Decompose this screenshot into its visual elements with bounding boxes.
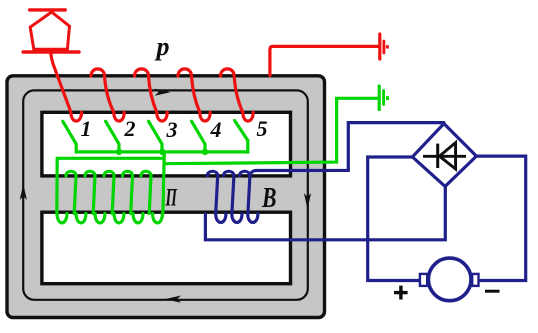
red plug socket bar bbox=[378, 34, 381, 59]
wire bridge left corner to motor plus side bbox=[368, 157, 420, 281]
winding V loop 2 top arc and front stroke bbox=[224, 171, 234, 213]
wire winding V output to bridge top corner bbox=[250, 123, 444, 176]
flux arrow bottom (left) bbox=[165, 296, 181, 303]
wire pentagon stem to winding P, tap hook 1 bbox=[51, 53, 82, 121]
winding P loop 3 bbox=[135, 69, 168, 121]
green plug pin tip bbox=[386, 96, 389, 100]
motor left brush bbox=[420, 274, 427, 286]
plus sign bbox=[394, 291, 408, 294]
red plug pin tip bbox=[386, 45, 389, 48]
winding Pi bottom arc 5 bbox=[133, 214, 143, 223]
winding Pi bottom arc 6 bbox=[153, 214, 163, 223]
svg-text:В: В bbox=[261, 182, 276, 214]
svg-text:5: 5 bbox=[257, 116, 268, 141]
winding Pi right end riser bbox=[163, 152, 164, 214]
bridge rectifier diamond bbox=[412, 124, 476, 187]
motor right brush bbox=[472, 274, 478, 286]
switch blade 4 bbox=[192, 121, 205, 152]
winding V left end wire down and to bridge bottom bbox=[205, 186, 445, 240]
svg-text:p: p bbox=[155, 32, 170, 61]
green tap bus bbox=[76, 150, 248, 153]
green plug pin bar bbox=[382, 91, 385, 105]
tap changer pentagon bbox=[30, 12, 69, 49]
winding Pi bottom arc 4 bbox=[114, 214, 124, 223]
wire bus to winding Pi left end bbox=[57, 158, 164, 213]
wire bridge right corner to motor minus side bbox=[476, 156, 525, 280]
winding P loop 2 bbox=[91, 69, 124, 121]
winding Pi bottom arc 3 bbox=[95, 214, 105, 223]
winding V loop 3 top arc and front stroke bbox=[240, 171, 250, 213]
wire winding P end up and right to red plug bbox=[270, 46, 378, 75]
tap changer pentagon symbol top bar bbox=[30, 8, 66, 11]
winding V loop 1 top arc and front stroke bbox=[207, 171, 217, 213]
winding V bottom arc 3 bbox=[248, 214, 258, 223]
motor M bbox=[428, 258, 471, 301]
winding Pi loop 3 top arc and front stroke bbox=[104, 171, 114, 213]
winding Pi bottom arc 1 bbox=[57, 214, 67, 223]
switch blade 3 bbox=[149, 121, 162, 152]
junction dot bbox=[116, 149, 122, 155]
switch blade 5 bbox=[235, 121, 248, 153]
green plug socket bar bbox=[378, 86, 381, 110]
core (gray magnetic core outer frame) bbox=[7, 76, 325, 318]
svg-text:2: 2 bbox=[124, 116, 136, 141]
diode horizontal line bbox=[423, 155, 466, 158]
upper window bbox=[42, 112, 291, 176]
winding Pi loop 4 top arc and front stroke bbox=[123, 171, 133, 213]
minus sign bbox=[485, 290, 500, 293]
junction dot bbox=[159, 149, 165, 155]
winding P loop 4 bbox=[178, 69, 210, 121]
winding P loop 5 bbox=[221, 69, 254, 121]
junction dot bbox=[202, 149, 208, 155]
switch blade 2 bbox=[106, 121, 119, 152]
red plug pin bar bbox=[382, 41, 385, 53]
flux path line bbox=[23, 90, 308, 299]
flux arrow top (right) bbox=[155, 89, 171, 96]
winding Pi loop 1 top arc and front stroke bbox=[66, 171, 76, 213]
diode triangle bbox=[439, 143, 455, 169]
tap changer pentagon bottom bar bbox=[23, 50, 79, 53]
flux arrow left (up) bbox=[20, 184, 27, 200]
wire winding Pi output to green plug bbox=[164, 98, 378, 163]
lower window bbox=[42, 212, 291, 284]
flux arrow right (down) bbox=[304, 193, 311, 209]
diode cathode bar bbox=[436, 144, 439, 168]
winding V bottom arc 2 bbox=[232, 214, 242, 223]
winding Pi loop 2 top arc and front stroke bbox=[85, 171, 95, 213]
svg-text:П: П bbox=[165, 185, 178, 212]
switch blade 1 bbox=[63, 121, 76, 152]
svg-text:4: 4 bbox=[210, 117, 222, 142]
winding Pi bottom arc 2 bbox=[76, 214, 86, 223]
svg-text:1: 1 bbox=[81, 116, 92, 141]
svg-text:3: 3 bbox=[166, 117, 178, 142]
winding Pi loop 5 top arc and front stroke bbox=[141, 171, 151, 213]
winding V bottom arc 1 bbox=[216, 214, 226, 223]
